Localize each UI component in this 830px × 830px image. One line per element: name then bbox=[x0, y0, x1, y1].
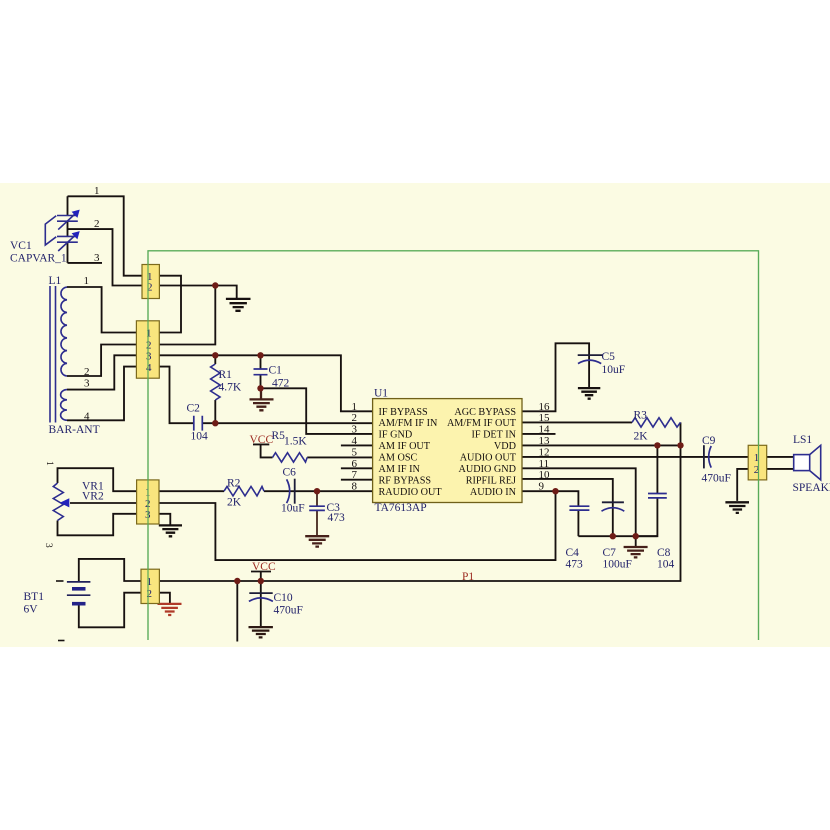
wire conn4 pin4 to C2 bbox=[159, 367, 194, 424]
capacitor C3 bbox=[309, 506, 325, 510]
wire pot bottom to VR conn pin3 bbox=[58, 514, 137, 536]
wire battery top to BT conn pin1 bbox=[79, 559, 141, 582]
svg-text:AM/FM IF IN: AM/FM IF IN bbox=[379, 418, 439, 429]
wire C8 stubs bbox=[636, 445, 658, 536]
svg-text:7: 7 bbox=[352, 469, 358, 481]
svg-text:C8: C8 bbox=[657, 547, 671, 559]
svg-text:IF BYPASS: IF BYPASS bbox=[379, 407, 429, 418]
svg-text:10: 10 bbox=[539, 469, 551, 481]
wire battery bottom to BT conn pin2 bbox=[79, 593, 141, 628]
capacitor C5 (polarized) bbox=[578, 355, 603, 364]
resistor R1 bbox=[211, 364, 220, 400]
sheet border (green) bbox=[148, 251, 759, 640]
svg-text:13: 13 bbox=[539, 435, 551, 447]
svg-text:2K: 2K bbox=[634, 431, 649, 443]
svg-text:SPEAKER: SPEAKER bbox=[793, 482, 830, 494]
wire ground rail C4-C7-C8 bbox=[578, 535, 657, 537]
U1 pin4 stub bbox=[341, 444, 373, 446]
svg-text:AM OSC: AM OSC bbox=[379, 453, 418, 464]
svg-text:RF BYPASS: RF BYPASS bbox=[379, 475, 432, 486]
battery polarity dash bbox=[56, 580, 64, 582]
node C1 top bbox=[257, 352, 263, 358]
svg-text:4: 4 bbox=[84, 411, 90, 423]
node R1 bottom / C2 bbox=[212, 420, 218, 426]
svg-text:C6: C6 bbox=[283, 467, 297, 479]
capacitor C4 bbox=[569, 506, 589, 510]
svg-text:11: 11 bbox=[539, 458, 550, 470]
svg-text:R3: R3 bbox=[634, 410, 648, 422]
svg-text:CAPVAR_1: CAPVAR_1 bbox=[10, 253, 67, 265]
capacitor C2 bbox=[194, 416, 203, 431]
svg-text:C9: C9 bbox=[702, 435, 716, 447]
node ground rail stub bbox=[633, 533, 639, 539]
capacitor C8 bbox=[648, 494, 667, 498]
battery BT1 bbox=[67, 582, 91, 606]
capacitor C6 (polarized) bbox=[287, 479, 295, 504]
svg-text:1: 1 bbox=[44, 461, 54, 466]
svg-text:VC1: VC1 bbox=[10, 240, 32, 252]
svg-text:VDD: VDD bbox=[494, 441, 516, 452]
ground (under VR conn pin3) bbox=[159, 525, 182, 536]
wire L1 w1 bottom to conn4 pin2 bbox=[67, 345, 136, 377]
sheet border (green, over components) bbox=[148, 251, 759, 640]
inductor L1 winding 2 bbox=[61, 390, 67, 421]
svg-text:4.7K: 4.7K bbox=[219, 382, 242, 394]
op-amp U1 TA7613AP box bbox=[373, 399, 522, 503]
wire C4 bottom stub bbox=[577, 510, 579, 536]
wire conn4 pin3 to U1 pin1 bbox=[159, 355, 372, 411]
wire U1 pin10 to C7 bbox=[522, 479, 613, 536]
U1 right pin numbers bbox=[539, 401, 551, 493]
svg-text:AM IF IN: AM IF IN bbox=[379, 464, 421, 475]
svg-text:10uF: 10uF bbox=[281, 503, 305, 515]
svg-text:AUDIO IN: AUDIO IN bbox=[470, 487, 517, 498]
svg-text:C5: C5 bbox=[602, 351, 616, 363]
wire U1 pin15 to R3 bbox=[522, 421, 632, 423]
wire L1 w1 top to conn4 pin1 bbox=[67, 287, 136, 333]
svg-text:RIPFIL REJ: RIPFIL REJ bbox=[466, 475, 516, 486]
wire VR conn pin3 to ground bbox=[159, 514, 170, 525]
svg-text:4: 4 bbox=[146, 362, 152, 374]
svg-text:470uF: 470uF bbox=[702, 473, 731, 485]
wire C2 to U1 pin2 bbox=[202, 422, 372, 424]
svg-text:R2: R2 bbox=[227, 478, 241, 490]
node VDD/C8 top bbox=[654, 442, 660, 448]
U1 left pin numbers bbox=[352, 401, 358, 493]
ground (near speaker) bbox=[725, 502, 749, 513]
wire P1 rail from BT conn pin1 to VDD bbox=[159, 445, 680, 581]
U1 pin6 stub bbox=[341, 467, 373, 469]
svg-text:R1: R1 bbox=[219, 369, 233, 381]
wire pot wiper to VR conn pin2 bbox=[70, 502, 137, 504]
svg-text:5: 5 bbox=[352, 446, 358, 458]
svg-text:P1: P1 bbox=[462, 571, 474, 583]
svg-text:AM/FM IF OUT: AM/FM IF OUT bbox=[447, 418, 517, 429]
wire ground stub under rail bbox=[635, 536, 637, 547]
wire VC1 internal rail segments bbox=[67, 196, 69, 263]
wire BT conn pin2 to ground bbox=[159, 593, 170, 604]
capacitor C7 (polarized) bbox=[602, 502, 625, 511]
resistor R2 bbox=[224, 487, 264, 496]
capacitor C10 (polarized) bbox=[249, 593, 273, 601]
connector (speaker header, 2-pin) bbox=[748, 445, 767, 480]
node P1 rail drop bbox=[234, 578, 240, 584]
wire C1 stubs bbox=[260, 355, 262, 388]
node C1 bottom bbox=[257, 385, 263, 391]
inductor L1 (bar antenna core lines) bbox=[50, 286, 67, 423]
wire VC1 pin3 stub bbox=[68, 262, 103, 264]
svg-text:AGC BYPASS: AGC BYPASS bbox=[454, 407, 516, 418]
svg-text:BT1: BT1 bbox=[24, 591, 45, 603]
ground (under C3) bbox=[305, 536, 329, 546]
svg-text:1: 1 bbox=[94, 185, 100, 197]
capacitor VC1 (variable, ganged) bbox=[45, 214, 78, 252]
U1 pin14 stub bbox=[522, 433, 556, 435]
ground (under C5) bbox=[578, 388, 600, 399]
potentiometer VR1/VR2 bbox=[53, 483, 69, 521]
wire U1 pin13 VDD row bbox=[522, 444, 681, 446]
node VDD/R3 bbox=[677, 442, 683, 448]
svg-text:IF GND: IF GND bbox=[379, 430, 413, 441]
ground (under BT conn pin2, red) bbox=[158, 604, 182, 615]
svg-text:9: 9 bbox=[539, 481, 545, 493]
wire R2 to C6 bbox=[264, 490, 295, 492]
svg-text:1: 1 bbox=[147, 576, 153, 588]
wire C6 to U1 pin8 bbox=[295, 490, 373, 492]
wire U1 pin16 to C5 bbox=[522, 343, 589, 411]
wire conn1 pin2 right to ground and drop to conn4 pin2 bbox=[159, 286, 236, 345]
node C6/C3 junction bbox=[314, 488, 320, 494]
resistor R3 bbox=[632, 418, 681, 427]
wire C10 stubs bbox=[260, 581, 262, 627]
wire L1 w2 bottom to conn4 pin4 bbox=[67, 367, 136, 421]
svg-text:8: 8 bbox=[352, 481, 358, 493]
svg-text:100uF: 100uF bbox=[603, 559, 632, 571]
svg-text:1: 1 bbox=[84, 275, 90, 287]
svg-text:1: 1 bbox=[146, 328, 152, 340]
svg-text:3: 3 bbox=[146, 350, 152, 362]
connector (battery header, 2-pin) bbox=[141, 569, 159, 603]
wire VC1 pin2 to connector J1 pin2 bbox=[68, 229, 143, 285]
node C7 bottom bbox=[610, 533, 616, 539]
capacitor C9 (polarized) bbox=[704, 445, 711, 468]
svg-text:1.5K: 1.5K bbox=[284, 436, 307, 448]
wire speaker conn pin1 to speaker bbox=[767, 456, 794, 458]
resistor R5 bbox=[273, 453, 308, 462]
svg-text:RAUDIO OUT: RAUDIO OUT bbox=[379, 487, 443, 498]
wire drop from P1 rail down bbox=[236, 581, 238, 642]
svg-text:6: 6 bbox=[352, 458, 358, 470]
svg-text:12: 12 bbox=[539, 446, 550, 458]
capacitor C1 bbox=[254, 369, 268, 375]
svg-text:6V: 6V bbox=[24, 604, 39, 616]
svg-text:473: 473 bbox=[566, 559, 584, 571]
svg-text:2K: 2K bbox=[227, 497, 242, 509]
svg-text:2: 2 bbox=[147, 588, 153, 600]
wire speaker conn pin2 to speaker bbox=[767, 468, 794, 470]
svg-text:473: 473 bbox=[328, 512, 346, 524]
svg-text:2: 2 bbox=[84, 366, 90, 378]
svg-text:472: 472 bbox=[272, 378, 290, 390]
battery polarity dash bottom bbox=[58, 640, 65, 642]
svg-text:3: 3 bbox=[94, 252, 100, 264]
svg-text:C7: C7 bbox=[603, 547, 617, 559]
ground (top, near conn1) bbox=[226, 299, 251, 311]
node R1 top bbox=[212, 352, 218, 358]
svg-text:4: 4 bbox=[352, 435, 358, 447]
wire C3 stubs bbox=[316, 491, 318, 536]
speaker LS1 symbol bbox=[794, 445, 821, 480]
svg-text:14: 14 bbox=[539, 423, 551, 435]
wire VC1 pin1 to connector J1 pin1 bbox=[68, 196, 143, 275]
svg-text:104: 104 bbox=[191, 431, 209, 443]
schematic cream background bbox=[0, 183, 830, 647]
ground (under C1) bbox=[250, 388, 274, 410]
wire C1 bottom to U1 pin3 bbox=[261, 388, 373, 434]
svg-text:3: 3 bbox=[352, 423, 358, 435]
connector (L1 header, 4-pin) bbox=[136, 321, 159, 378]
svg-text:AM IF OUT: AM IF OUT bbox=[379, 441, 431, 452]
wire pot top to VR conn pin1 bbox=[58, 468, 137, 491]
U1 pin7 stub bbox=[341, 479, 373, 481]
svg-text:2: 2 bbox=[94, 218, 100, 230]
svg-text:C1: C1 bbox=[269, 365, 283, 377]
svg-text:AUDIO OUT: AUDIO OUT bbox=[460, 453, 517, 464]
svg-text:C2: C2 bbox=[187, 403, 201, 415]
svg-text:470uF: 470uF bbox=[274, 605, 303, 617]
ground (under C10) bbox=[249, 627, 273, 637]
svg-text:10uF: 10uF bbox=[602, 364, 626, 376]
svg-text:15: 15 bbox=[539, 412, 551, 424]
wire VR conn pin1 to R2 bbox=[159, 490, 224, 492]
svg-text:C4: C4 bbox=[566, 547, 580, 559]
wire conn1 pin1 right to conn4 pin1 bbox=[159, 276, 181, 333]
node U1 pin9 junction bbox=[552, 488, 558, 494]
svg-text:2: 2 bbox=[352, 412, 358, 424]
svg-text:3: 3 bbox=[84, 378, 90, 390]
node VCC/C10 bbox=[258, 578, 264, 584]
svg-text:LS1: LS1 bbox=[793, 434, 812, 446]
wire VR conn pin2 right to U1 pin9 net bbox=[159, 491, 556, 560]
svg-text:BAR-ANT: BAR-ANT bbox=[49, 424, 100, 436]
wire VCC2 bar stub bbox=[251, 572, 271, 582]
node conn1 pin2 junction bbox=[212, 282, 218, 288]
svg-text:VR2: VR2 bbox=[82, 491, 104, 503]
wire L1 w2 top to conn4 pin3 bbox=[67, 355, 136, 389]
wire R1 stubs bbox=[214, 355, 216, 423]
connector (VR header, 3-pin) bbox=[137, 480, 159, 524]
wire U1 pin12 to C9 bbox=[522, 456, 704, 458]
wire U1 pin9 to C4 bbox=[522, 491, 578, 506]
svg-text:IF DET IN: IF DET IN bbox=[471, 430, 516, 441]
wire R3 right drop bbox=[680, 422, 682, 445]
svg-text:3: 3 bbox=[43, 543, 53, 548]
svg-text:104: 104 bbox=[657, 559, 675, 571]
inductor L1 winding 1 bbox=[61, 287, 67, 376]
svg-text:L1: L1 bbox=[49, 275, 62, 287]
svg-text:C10: C10 bbox=[274, 592, 293, 604]
wire VCC bar to R5 bbox=[253, 444, 273, 457]
wire U1 pin11 to ground rail bbox=[522, 468, 636, 536]
connector (VC1 header, 2-pin) bbox=[142, 265, 159, 299]
svg-text:U1: U1 bbox=[374, 388, 388, 400]
svg-text:VCC: VCC bbox=[250, 434, 274, 446]
svg-text:TA7613AP: TA7613AP bbox=[375, 502, 427, 514]
svg-text:VCC: VCC bbox=[252, 561, 276, 573]
wire speaker conn pin2 left to ground bbox=[737, 469, 748, 501]
ground (under C7 rail, maroon) bbox=[624, 547, 648, 557]
wire R5 to U1 pin5 bbox=[307, 456, 372, 458]
svg-text:AUDIO GND: AUDIO GND bbox=[459, 464, 516, 475]
